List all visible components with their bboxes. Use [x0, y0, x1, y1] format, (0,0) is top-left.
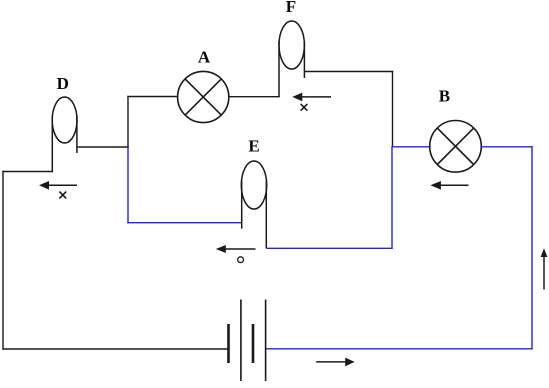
lamp A [178, 71, 229, 122]
wire left vertical [2, 171, 4, 350]
current arrow near D [39, 181, 77, 190]
wire (blue) lamp B to right corner [481, 146, 533, 148]
component D (oval with leads) [52, 97, 77, 172]
wire junction up [127, 96, 129, 148]
wire down to node J2 [392, 71, 394, 147]
wire (blue) bottom to battery [266, 348, 533, 350]
wire (blue) right branch up to node J2 [391, 146, 393, 249]
wire (blue) node J2 to lamp B [392, 146, 430, 148]
svg-text:E: E [248, 137, 259, 156]
wire D to junction [77, 146, 129, 148]
svg-text:D: D [57, 74, 69, 93]
current arrow right side (points up) [541, 248, 548, 289]
wire (blue) E to right branch [266, 247, 392, 249]
lamp B [430, 121, 482, 173]
mark x near D [59, 192, 66, 199]
mark x near F [301, 104, 308, 111]
current arrow near E [216, 245, 256, 253]
svg-text:F: F [286, 0, 296, 16]
mark o near E [238, 257, 244, 263]
battery [229, 300, 266, 382]
svg-text:A: A [198, 48, 211, 67]
wire (blue) junction down [127, 147, 129, 223]
current arrow bottom (points right) [316, 358, 355, 367]
wire F to top-right corner [304, 71, 393, 73]
component E (oval with leads) [241, 161, 266, 248]
wire (blue) to E left lead [127, 222, 241, 224]
component F (oval with leads) [279, 21, 304, 97]
wire battery-left to left edge [2, 348, 228, 350]
wire to lamp A [127, 96, 178, 98]
current arrow near B [430, 181, 468, 190]
wire lamp A to F left lead [229, 96, 280, 98]
wire to D left lead [2, 171, 53, 173]
current arrow near F [292, 93, 331, 102]
svg-text:B: B [439, 86, 450, 105]
wire (blue) right vertical [531, 146, 533, 349]
